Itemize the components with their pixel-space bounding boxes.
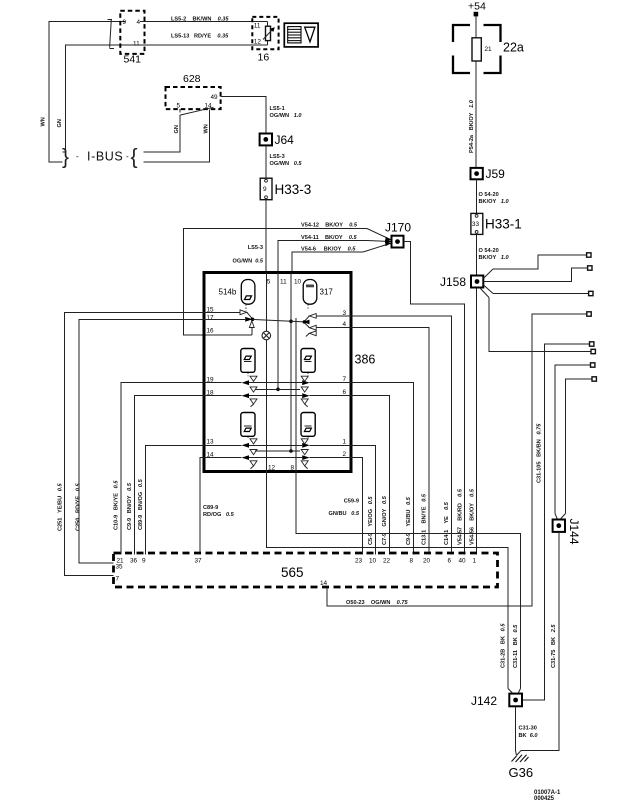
wire LS5-3 J64 to H33-3 (265, 145, 267, 178)
wire C9-9 386 pin7 to 565 pin8 (351, 383, 414, 555)
wire LS5-1 from 628 pin 49 to J64 (221, 97, 266, 134)
svg-text:+54: +54 (468, 1, 486, 13)
svg-text:RD/OG 0.5: RD/OG 0.5 (203, 512, 235, 518)
wire C31-11 386 pin8 to J142 (296, 472, 521, 689)
wire V54-6 386 pin 10 to J170 (292, 252, 363, 273)
component 16 rheostat (252, 17, 278, 64)
terminal J144 left (591, 363, 595, 367)
junction J142 (471, 694, 522, 708)
svg-text:C5-9 YE/OG 0.5: C5-9 YE/OG 0.5 (368, 496, 374, 545)
svg-text:5: 5 (267, 279, 271, 286)
svg-text:22a: 22a (503, 41, 524, 55)
wire pin8 ladder internal (295, 318, 297, 472)
wire C9-9 386 pin18 to 565 pin36 (135, 396, 205, 555)
switch arm in 628 (180, 107, 214, 115)
wire C10-9 386 pin19 to 565 pin21 (121, 383, 204, 555)
svg-text:O50-23 OG/WN 0.75: O50-23 OG/WN 0.75 (346, 600, 408, 606)
svg-text:OG/WN 0.5: OG/WN 0.5 (270, 161, 303, 167)
svg-text:6: 6 (343, 389, 347, 396)
switch row2 left: pin19 arm (204, 380, 249, 385)
svg-text:628: 628 (183, 73, 201, 85)
svg-text:12: 12 (254, 39, 262, 46)
switch row3 left contacts (250, 439, 257, 469)
svg-text:LS5-13 RD/YE 0.35: LS5-13 RD/YE 0.35 (171, 34, 229, 40)
svg-text:H33-3: H33-3 (275, 182, 312, 197)
arrowheads into J170 (385, 237, 392, 246)
switch row3 right contacts (301, 439, 308, 469)
switch row2 right: pin6 arm (302, 393, 351, 398)
switch row1 left: pin15 contact (204, 310, 252, 319)
mech link dashed row2 right (307, 372, 309, 376)
svg-text:BK/OY 1.0: BK/OY 1.0 (479, 255, 510, 261)
wire C251 386 pin15 to 565 pin7 (65, 312, 205, 575)
connector H33-3 (260, 178, 311, 200)
svg-text:21: 21 (485, 46, 493, 53)
connector 565 (114, 553, 498, 587)
svg-text:{: { (131, 146, 138, 169)
svg-text:12: 12 (268, 464, 276, 471)
svg-text:9: 9 (123, 19, 127, 26)
switch row3 right: pin1 arm (302, 443, 351, 448)
wire C14-1 386 pin3 to 565 pin6 (351, 316, 452, 555)
wire +54 feed (475, 16, 477, 168)
svg-text:J158: J158 (440, 275, 466, 289)
svg-text:40: 40 (459, 557, 467, 564)
svg-text:C251 YE/BU 0.5: C251 YE/BU 0.5 (58, 483, 64, 531)
wire pin10 internal (290, 273, 292, 452)
svg-text:V54-12 BK/OY 0.5: V54-12 BK/OY 0.5 (301, 223, 358, 229)
svg-text:P54-2a BK/OY 1.0: P54-2a BK/OY 1.0 (469, 99, 475, 153)
terminal branch 3 (589, 291, 593, 295)
mech link dashed 317 (307, 304, 309, 308)
ground G36 (509, 755, 534, 780)
svg-text:23: 23 (355, 557, 363, 564)
svg-text:8: 8 (410, 557, 414, 564)
wire C89-9 386 pin13 to 565 pin9 (146, 445, 205, 554)
svg-text:11: 11 (280, 279, 287, 286)
svg-text:8: 8 (291, 464, 295, 471)
terminal branch 1 (587, 253, 591, 257)
svg-text:C7-9 GN/OY 0.5: C7-9 GN/OY 0.5 (382, 495, 388, 545)
switch row2 left contacts (250, 376, 257, 407)
wire row2 rail pin19-pin7 (249, 382, 302, 384)
wire J158 branch 1 (483, 269, 493, 279)
node pin11 common dot (276, 388, 280, 392)
svg-text:C9-9 YE/BU 0.5: C9-9 YE/BU 0.5 (406, 496, 412, 545)
svg-text:C14-1 YE 0.5: C14-1 YE 0.5 (444, 501, 450, 545)
svg-text:WN: WN (41, 117, 47, 126)
svg-text:V54-6 BK/OY 0.5: V54-6 BK/OY 0.5 (301, 247, 356, 253)
junction J144 (553, 519, 581, 545)
mech link dashed row2 left (247, 372, 249, 376)
wire C31-105 terminal to J142 (522, 344, 590, 700)
wire C250 386 pin17 to 565 pin35 (79, 319, 204, 563)
wire C5-9 386 pin1 to 565 pin10 (351, 445, 376, 554)
svg-text:7: 7 (343, 376, 347, 383)
wire pin11 internal (277, 273, 279, 390)
svg-text:G36: G36 (509, 765, 534, 780)
svg-text:9: 9 (263, 186, 267, 193)
svg-text:33: 33 (472, 221, 480, 228)
wire V54-57 J170 to 565 pin 40 (404, 242, 465, 555)
svg-text:C31-30: C31-30 (519, 726, 537, 732)
mech link dashed 514b (245, 304, 247, 311)
wire row3 rail pin14-pin2 (249, 457, 302, 459)
svg-text:C250 RD/YE 0.5: C250 RD/YE 0.5 (76, 483, 82, 531)
wire J158 branch 2 (483, 268, 587, 282)
switch row2 left: pin18 arm (204, 393, 249, 398)
junction J170 (385, 221, 411, 248)
svg-text:J170: J170 (385, 221, 411, 235)
svg-text:WN: WN (204, 124, 210, 133)
svg-text:9: 9 (142, 557, 146, 564)
svg-text:LS5-1: LS5-1 (270, 106, 285, 112)
switch row1 left: pin17 wiper (204, 317, 254, 322)
svg-text:BK/OY 1.0: BK/OY 1.0 (479, 199, 510, 205)
lamp symbol (262, 331, 271, 340)
wire GN to 628 pin 5 (144, 115, 181, 152)
svg-text:10: 10 (294, 279, 302, 286)
svg-text:22: 22 (383, 557, 391, 564)
wire pin5 to lamp (265, 273, 267, 332)
wire row2 rail pin18-pin6 (249, 395, 302, 397)
wire V54-12 386 pin 16 to J170 (184, 229, 368, 335)
svg-text:1: 1 (473, 557, 477, 564)
wire WN to 628 pin 14 (144, 110, 210, 163)
node pin10 top dot (289, 320, 293, 324)
terminal +54 (474, 12, 479, 17)
switch arm at 541 pin 9 (108, 19, 114, 48)
icon 514b stadium (219, 280, 255, 305)
svg-text:20: 20 (423, 557, 431, 564)
svg-text:4: 4 (137, 19, 141, 26)
wire lamp to pin12 (265, 340, 267, 472)
svg-text:C31-2B BK 0.5: C31-2B BK 0.5 (501, 623, 507, 668)
svg-text:16: 16 (207, 328, 215, 335)
terminal branch 4 (591, 349, 595, 353)
mech link dashed row3 right (307, 436, 309, 439)
wire O54-20 H33-1 to J158 (476, 234, 478, 275)
connector 541 (120, 11, 144, 66)
mech link dashed row3 left (247, 436, 249, 439)
svg-text:J142: J142 (471, 694, 497, 708)
wire LS5-13 lower I-BUS loop (63, 45, 268, 152)
wire C13-1 386 pin4 to 565 pin20 (351, 328, 429, 555)
switch row3 left: pin14 arm (204, 455, 249, 460)
svg-text:6: 6 (448, 557, 452, 564)
terminal branch 2 (588, 266, 592, 270)
svg-text:14: 14 (320, 580, 328, 587)
junction J59 (471, 167, 506, 181)
wire J158 branch 3 (483, 285, 493, 294)
wire J158 branch 4 (480, 288, 490, 298)
fuse holder 22a (453, 25, 524, 73)
svg-text:14: 14 (205, 102, 213, 109)
icon instrument display (284, 23, 318, 47)
svg-text:}: } (62, 146, 69, 169)
wire LS5-3 H33-3 to 386 pin 5 (265, 200, 267, 273)
switch row2 right contacts (301, 376, 308, 407)
junction J64 (260, 133, 295, 147)
svg-text:5: 5 (177, 102, 181, 109)
icon window row3 left (241, 413, 255, 437)
svg-text:J144: J144 (567, 519, 581, 545)
wire C59-9 386 pin2 to 565 pin23 (351, 458, 363, 555)
svg-text:BK 6.0: BK 6.0 (519, 733, 539, 739)
switch row1 right: pin4 contact (305, 324, 351, 331)
svg-text:OG/WN 0.5: OG/WN 0.5 (233, 259, 264, 265)
wire row1 common rail (253, 319, 305, 322)
wire C31-75 J144 to G36 (521, 532, 559, 751)
svg-text:-: - (126, 152, 129, 161)
wire C31-30 J142 to G36 (515, 706, 517, 751)
svg-text:37: 37 (195, 557, 203, 564)
svg-text:317: 317 (320, 288, 334, 297)
wire row3 common rail (255, 450, 300, 452)
icon 317 stadium (303, 280, 333, 305)
svg-text:V54-11 BK/OY 0.5: V54-11 BK/OY 0.5 (301, 235, 358, 241)
svg-text:541: 541 (124, 54, 142, 66)
terminal O50-23 (587, 312, 591, 316)
svg-text:11: 11 (254, 23, 261, 30)
svg-text:C89-9 BN/OG 0.5: C89-9 BN/OG 0.5 (138, 478, 144, 530)
wire O54-20 J59 to H33-1 (476, 179, 478, 213)
switch row3 left: pin13 arm (204, 443, 249, 448)
wire V54-56 J158 to 565 pin 1 (476, 288, 478, 555)
svg-text:7: 7 (116, 576, 120, 583)
svg-text:514b: 514b (219, 288, 237, 297)
svg-text:000425: 000425 (534, 796, 555, 800)
switch row1 right: lower spare contact (306, 331, 316, 337)
wire LS5-2 upper I-BUS loop (49, 22, 268, 163)
wire row2 common rail (255, 388, 300, 390)
svg-text:C89-9: C89-9 (203, 505, 218, 511)
svg-text:17: 17 (207, 315, 215, 322)
svg-text:LS5-3: LS5-3 (248, 245, 263, 251)
terminal C31-105 (590, 342, 594, 346)
switch row2 right: pin7 arm (302, 380, 351, 385)
switch row1 left: pin16 contact (249, 321, 254, 335)
node I-BUS (62, 146, 138, 169)
icon window row3 right (301, 413, 315, 437)
node pin10 bottom dot (289, 449, 293, 453)
svg-text:GN: GN (174, 125, 180, 133)
svg-text:16: 16 (258, 52, 270, 64)
svg-text:13: 13 (207, 439, 215, 446)
svg-text:4: 4 (343, 321, 347, 328)
svg-text:J59: J59 (486, 167, 506, 181)
svg-text:O 54-20: O 54-20 (479, 248, 499, 254)
terminal J144 right (592, 377, 596, 381)
svg-text:386: 386 (355, 353, 376, 367)
svg-text:V54-56 BK/OY 0.5: V54-56 BK/OY 0.5 (470, 488, 476, 545)
svg-text:35: 35 (116, 564, 124, 571)
svg-text:OG/WN 1.0: OG/WN 1.0 (270, 113, 303, 119)
svg-text:-: - (76, 152, 79, 161)
svg-text:H33-1: H33-1 (485, 217, 522, 232)
wire row3 rail pin13-pin1 (249, 444, 302, 446)
svg-text:V54-57 BK/RD 0.5: V54-57 BK/RD 0.5 (458, 488, 464, 545)
connector H33-1 (471, 213, 522, 234)
svg-text:C31-75 BK 2.5: C31-75 BK 2.5 (551, 624, 557, 668)
svg-text:C59-9: C59-9 (344, 499, 359, 505)
svg-text:11: 11 (133, 41, 140, 48)
connector 628 (166, 73, 221, 109)
svg-text:GN/BU 0.5: GN/BU 0.5 (329, 511, 360, 517)
svg-text:GN: GN (57, 119, 63, 127)
svg-text:O 54-20: O 54-20 (479, 192, 499, 198)
icon window row2 left (241, 349, 255, 373)
svg-text:49: 49 (211, 94, 219, 101)
switch unit 386 box (204, 273, 351, 472)
switch row1 right: pin3 contact (305, 314, 351, 321)
svg-text:10: 10 (369, 557, 377, 564)
svg-text:1: 1 (343, 438, 347, 445)
junction J158 (440, 275, 483, 289)
icon window row2 right (301, 349, 315, 373)
svg-text:I-BUS: I-BUS (87, 150, 123, 164)
wire J144 branch right terminal (566, 379, 593, 514)
wire C89-9 386 pin14 to 565 pin37 (200, 458, 204, 555)
switch row3 right: pin2 arm (302, 455, 351, 460)
svg-text:2: 2 (343, 451, 347, 458)
svg-text:C9-9 BN/OY 0.5: C9-9 BN/OY 0.5 (127, 482, 133, 530)
svg-text:C10-9 BK/YE 0.5: C10-9 BK/YE 0.5 (114, 480, 120, 530)
wire O50-23 565 pin14 to right terminal (327, 314, 587, 606)
switch row1 right: pivot wiper (303, 320, 310, 325)
svg-text:LS5-3: LS5-3 (270, 154, 285, 160)
svg-text:LS5-2 BK/WN 0.35: LS5-2 BK/WN 0.35 (171, 17, 229, 23)
svg-text:C31-105 BK/BN 0.75: C31-105 BK/BN 0.75 (537, 423, 543, 483)
wire C7-9 386 pin6 to 565 pin22 (351, 396, 390, 555)
svg-text:36: 36 (130, 557, 138, 564)
wire V54-11 386 pin 11 to J170 (278, 241, 367, 273)
wire J144 branch left terminal (555, 365, 591, 514)
wire C31-2B 386 pin12 to J142 (266, 472, 508, 689)
svg-text:C31-11 BK 0.5: C31-11 BK 0.5 (513, 624, 519, 668)
svg-text:565: 565 (281, 565, 304, 580)
svg-text:J64: J64 (275, 133, 295, 147)
svg-text:C13-1 BN/YE 0.5: C13-1 BN/YE 0.5 (422, 493, 428, 545)
